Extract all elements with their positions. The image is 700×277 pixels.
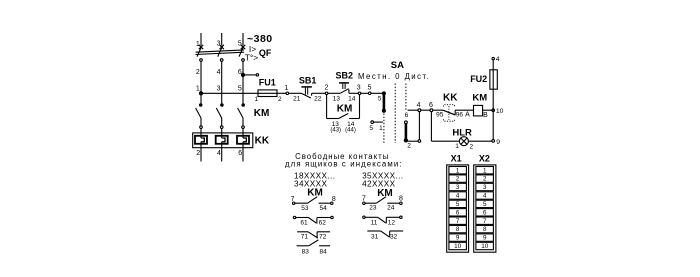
wire node2 to SB2 [328,92,340,94]
svg-text:23: 23 [369,205,377,212]
left contact 71-72 (NC) [297,232,330,238]
svg-text:5: 5 [238,86,242,93]
svg-text:4: 4 [217,69,221,76]
svg-text:7: 7 [483,218,487,225]
labels 23 24 [369,205,395,212]
svg-text:5: 5 [483,201,487,208]
node 1 [284,85,288,95]
svg-text:6: 6 [405,112,409,119]
svg-text:KK: KK [443,93,458,104]
node 2 [324,85,328,95]
node 10 [492,108,504,115]
svg-text:72: 72 [319,234,327,241]
left group terminal labels 7 8 [291,196,336,203]
svg-text:11: 11 [371,219,378,226]
svg-text:2: 2 [483,176,487,183]
node tap on phase 6 to terminal [241,73,258,76]
KK heater element 2 [216,136,228,162]
svg-text:2: 2 [469,144,473,151]
terminal circle below node 4 [418,140,421,143]
X2 terminal numbers [481,167,489,250]
node 4 [417,102,421,112]
svg-text:2: 2 [196,69,200,76]
svg-text:8: 8 [399,196,403,203]
svg-text:83: 83 [302,249,310,256]
coil wire labels A B [465,111,488,118]
svg-text:14: 14 [348,95,356,102]
breaker QF pole 3 (wire L3) [239,33,245,104]
svg-text:53: 53 [301,205,309,212]
svg-text:8: 8 [456,226,460,233]
pushbutton SB1 (stop, NC) [301,87,325,98]
svg-text:QF: QF [259,48,272,58]
svg-text:96: 96 [456,112,464,119]
KM aux terminal labels 13 14 (43)(44) [330,121,355,134]
SA position dotted line Местн. [383,114,385,144]
SB2 terminal labels 13 14 [333,95,356,102]
svg-text:12: 12 [388,219,396,226]
svg-text:(43): (43) [330,128,341,134]
svg-text:5: 5 [378,95,382,102]
svg-text:1: 1 [483,167,487,174]
fuse FU1 [258,90,286,97]
svg-text:10: 10 [454,243,462,250]
KK heater element 1 [195,136,207,162]
svg-text:1: 1 [455,143,459,150]
wire node5 to SA [371,92,384,94]
svg-text:32: 32 [390,233,398,240]
svg-text:6: 6 [456,209,460,216]
right rail wire [492,89,494,139]
svg-text:2: 2 [324,85,328,92]
svg-text:5: 5 [456,201,460,208]
svg-text:95: 95 [436,112,444,119]
labels 83 84 [302,249,328,256]
svg-text:9: 9 [496,139,500,146]
wire node1 to SB1 [289,92,302,94]
wire node3 to node5 [361,92,369,94]
KK contact terminal labels 95 96 [436,112,463,119]
svg-text:31: 31 [371,233,379,240]
QF pole terminal labels 1 3 5 [196,40,242,48]
right contact 11-12 (NC) [363,216,402,223]
node 6 [429,102,433,112]
svg-text:8: 8 [483,226,487,233]
svg-text:7: 7 [362,196,366,203]
svg-text:9: 9 [483,235,487,242]
right contact 31-32 (NC) [367,231,403,237]
pushbutton SB2 (start, NO) [339,83,358,93]
svg-text:KM: KM [472,92,487,103]
svg-text:FU1: FU1 [259,77,276,87]
SA position dotted line 0 [394,84,396,144]
svg-text:2: 2 [196,150,200,157]
svg-text:10: 10 [496,108,504,115]
svg-text:(44): (44) [345,128,356,134]
SA contact 5-1 labels [369,125,383,132]
SA open contact 5-1 [371,121,383,124]
left contact 61-62 (NC) [293,216,333,223]
KM main contact terminal labels 1 3 5 [196,86,242,93]
node 3 [357,85,361,95]
SB1 terminal labels 21 22 [293,95,322,102]
thermal contact KK 95-96 [443,105,473,122]
svg-text:KK: KK [255,136,270,147]
breaker QF pole 2 (wire L2) [218,33,224,104]
svg-text:KM: KM [254,108,270,119]
labels 31 32 [371,233,398,240]
top terminal 4 of right rail [492,56,500,63]
svg-text:10: 10 [481,243,489,250]
node 5 [367,85,371,95]
SA remote contact bar (Дист. position, terminals 6-2) [404,112,411,149]
svg-text:5: 5 [238,40,242,47]
left contact 53-54 (NO) [293,197,333,205]
svg-text:X1: X1 [451,154,462,164]
X1 terminal numbers [454,167,462,250]
svg-text:2: 2 [456,176,460,183]
labels 53 54 [301,205,327,212]
index variants column titles [294,171,403,188]
svg-text:1: 1 [196,41,200,48]
svg-text:6: 6 [238,150,242,157]
left contact 83-84 (NO) [297,240,331,246]
lamp line wire [431,140,459,142]
fuse FU2 [490,70,497,89]
svg-text:6: 6 [483,209,487,216]
QF labels I> QF T°> [245,44,272,63]
wire control line to FU1 [203,92,259,94]
svg-text:1: 1 [254,96,258,103]
svg-text:2: 2 [407,143,411,150]
wire terminal4 to FU2 [492,60,494,70]
labels 71 72 [301,234,327,241]
labels 61 62 [300,219,326,226]
terminal block X1 [447,165,469,252]
svg-text:KM: KM [337,104,353,115]
svg-text:21: 21 [293,95,301,102]
svg-text:6: 6 [429,102,433,109]
svg-text:3: 3 [483,184,487,191]
labels 11 12 [371,219,396,226]
node 9 [492,139,500,146]
svg-text:SA: SA [391,60,404,71]
svg-text:71: 71 [301,234,309,241]
QF lower terminal labels 2 4 6 [196,69,242,76]
contactor KM main contact pole 1 [196,104,203,138]
svg-text:22: 22 [314,95,322,102]
svg-text:54: 54 [319,205,327,212]
svg-text:4: 4 [496,56,500,63]
thermal relay KK box [193,133,253,148]
SA contact bar (Местн. position, terminals 5) [382,92,385,112]
FU1 terminal labels 1 2 [254,96,282,103]
svg-text:1: 1 [196,86,200,93]
svg-text:3: 3 [456,184,460,191]
junction node control tap [199,92,202,95]
KM auxiliary self-hold contact branch [327,95,360,119]
svg-text:Местн. 0 Дист.: Местн. 0 Дист. [358,72,430,81]
svg-text:84: 84 [319,249,327,256]
contactor KM main contact pole 3 [238,104,245,138]
svg-text:SB2: SB2 [336,71,354,81]
svg-text:для ящиков с индексами:: для ящиков с индексами: [285,159,403,168]
svg-text:62: 62 [319,219,327,226]
svg-text:2: 2 [278,96,282,103]
svg-text:61: 61 [300,219,308,226]
svg-text:B: B [483,112,488,119]
svg-text:A: A [465,111,470,118]
KK heater element 3 [237,136,249,162]
svg-text:3: 3 [357,85,361,92]
svg-text:3: 3 [217,86,221,93]
KK output labels 2 4 6 [196,150,242,157]
svg-text:HLR: HLR [452,127,472,138]
svg-text:4: 4 [483,193,487,200]
svg-text:T°>: T°> [245,53,259,63]
terminal block X2 [474,165,496,252]
svg-text:5: 5 [369,125,373,132]
svg-text:1: 1 [456,167,460,174]
heading free contacts [285,152,403,169]
svg-text:4: 4 [217,150,221,157]
right contact 23-24 (NO) [363,197,402,205]
breaker QF pole 1 (wire L1) [197,33,203,104]
svg-text:SB1: SB1 [299,75,317,85]
svg-text:5: 5 [367,85,371,92]
HLR terminal labels 1 2 [455,143,473,150]
svg-text:24: 24 [387,205,395,212]
QF linkage double bar [196,50,245,55]
contactor coil KM [474,105,492,116]
svg-text:13: 13 [333,95,341,102]
svg-text:7: 7 [456,218,460,225]
svg-text:1: 1 [379,125,383,132]
svg-text:FU2: FU2 [470,74,487,84]
svg-text:4: 4 [456,193,460,200]
wire SA bar2 to terminal circle [406,140,418,142]
wire node6 drop to lamp line [430,112,432,142]
contactor KM main contact pole 2 [216,104,223,138]
lamp HLR [459,137,492,146]
SA position dotted line Дист. [405,84,407,111]
svg-text:9: 9 [456,235,460,242]
svg-text:4: 4 [417,102,421,109]
svg-text:X2: X2 [479,154,490,164]
svg-text:3: 3 [217,40,221,47]
svg-text:1: 1 [284,85,288,92]
remote control line [408,109,443,111]
right group terminal labels 7 8 [362,196,403,203]
wire node4 drop [418,112,420,140]
svg-text:KM: KM [307,187,323,198]
